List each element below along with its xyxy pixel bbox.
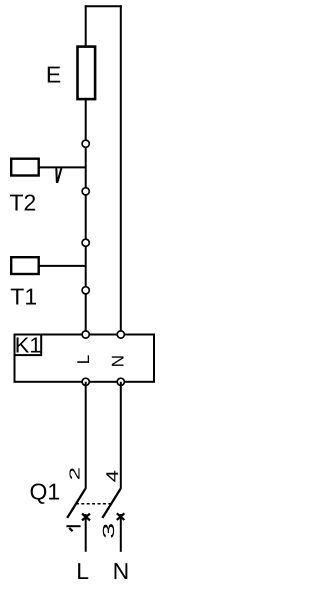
node terminal circle 1 bbox=[82, 140, 89, 147]
svg-text:L: L bbox=[74, 355, 93, 364]
wire right vertical L-to-N return bbox=[120, 5, 122, 334]
switch Q1 blade pole N bbox=[102, 489, 120, 518]
svg-text:K1: K1 bbox=[15, 332, 42, 357]
wire T1 to main bbox=[39, 265, 86, 267]
pin 1 bbox=[66, 526, 80, 531]
node terminal circle 4 bbox=[82, 287, 89, 294]
component E (heating element) bbox=[78, 47, 96, 100]
wire L down to Q1 bbox=[85, 382, 87, 489]
wire N below Q1 bbox=[120, 514, 122, 552]
contact symbol T2 (wedge) bbox=[56, 168, 61, 183]
node terminal circle 2 bbox=[82, 188, 89, 195]
switch Q1 linkage dashed bbox=[76, 503, 111, 505]
svg-text:N: N bbox=[109, 355, 128, 367]
node terminal N bottom bbox=[117, 378, 124, 385]
sensor T2 box bbox=[11, 159, 39, 176]
contact cross L bbox=[82, 514, 90, 521]
svg-text:2: 2 bbox=[67, 467, 83, 480]
contact cross N bbox=[117, 513, 125, 520]
svg-text:E: E bbox=[46, 61, 61, 87]
sensor T1 box bbox=[11, 257, 39, 274]
wire T2 to main bbox=[39, 166, 86, 168]
wire top left vertical bbox=[85, 5, 87, 45]
svg-text:Q1: Q1 bbox=[30, 478, 61, 504]
node terminal L top bbox=[82, 331, 89, 338]
wire N down to Q1 bbox=[120, 382, 122, 489]
wire top horizontal bbox=[85, 5, 122, 7]
svg-text:N: N bbox=[113, 558, 130, 584]
node terminal N top bbox=[117, 331, 124, 338]
label box K1 bbox=[15, 335, 42, 356]
svg-text:T1: T1 bbox=[10, 284, 37, 310]
switch Q1 blade pole L bbox=[67, 489, 85, 518]
node terminal circle 3 bbox=[82, 239, 89, 246]
wire main vertical below E bbox=[85, 100, 87, 335]
svg-text:L: L bbox=[76, 558, 89, 584]
svg-text:T2: T2 bbox=[10, 190, 37, 216]
node terminal L bottom bbox=[82, 378, 89, 385]
relay K1 box bbox=[15, 335, 155, 382]
wire L below Q1 bbox=[85, 514, 87, 552]
svg-text:3: 3 bbox=[100, 523, 118, 539]
svg-text:4: 4 bbox=[103, 470, 122, 482]
